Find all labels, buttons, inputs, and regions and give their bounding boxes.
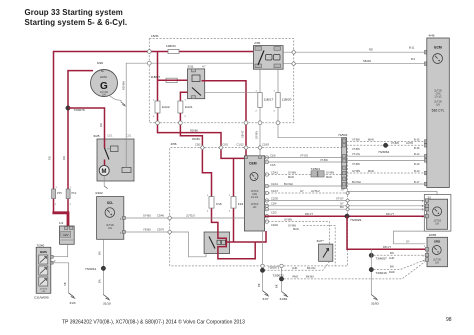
- svg-text:GY: GY: [406, 240, 410, 244]
- svg-text:LHD: LHD: [389, 256, 394, 260]
- svg-text:BN: BN: [390, 251, 394, 255]
- circles on 4/56 bottom edge: [261, 264, 264, 267]
- svg-text:GY-BN: GY-BN: [288, 223, 296, 227]
- svg-text:PF5: PF5: [57, 191, 62, 195]
- pre-fuse PF2: [66, 189, 77, 199]
- svg-text:J1/T1/0: J1/T1/0: [433, 221, 441, 223]
- svg-text:VT-BN: VT-BN: [352, 147, 360, 151]
- ground 31/3: [69, 293, 76, 305]
- svg-text:7/240: 7/240: [37, 243, 45, 247]
- junction 73/5072: [273, 262, 426, 282]
- svg-text:73/4057: 73/4057: [376, 256, 387, 260]
- wire: BMS to ground: [51, 263, 69, 293]
- svg-text:C1/41: C1/41: [271, 182, 278, 186]
- svg-text:VT-BN: VT-BN: [391, 141, 399, 145]
- row C2/14 red to ignition switch: [265, 215, 268, 218]
- fuse F15: [209, 197, 222, 232]
- svg-text:4/56: 4/56: [171, 142, 177, 146]
- diamonds on 15/31 right edge: [292, 50, 296, 55]
- svg-text:31/7: 31/7: [263, 297, 269, 301]
- svg-text:VT-BN: VT-BN: [320, 158, 328, 162]
- row C2/30: [265, 199, 268, 202]
- ECM 4/46: [427, 34, 450, 188]
- svg-text:RD-WH: RD-WH: [122, 81, 126, 90]
- svg-text:F24: F24: [238, 202, 244, 206]
- wire: GY loop ignition to SRD: [394, 231, 426, 244]
- svg-text:F15: F15: [216, 202, 222, 206]
- svg-text:CEM: CEM: [249, 162, 257, 166]
- fuse 11B/20: [276, 93, 292, 108]
- row B-14: [347, 155, 426, 157]
- svg-text:C31/W099: C31/W099: [34, 295, 49, 299]
- svg-text:11A/1: 11A/1: [185, 105, 193, 109]
- svg-text:C3/76: C3/76: [157, 228, 164, 232]
- ignition switch box 3/1: [422, 195, 451, 232]
- svg-text:Group 33 Starting system: Group 33 Starting system: [25, 8, 123, 17]
- svg-text:B-11: B-11: [409, 46, 415, 50]
- svg-text:LIN: LIN: [253, 207, 257, 209]
- svg-text:4/46: 4/46: [429, 34, 435, 38]
- svg-text:15/31: 15/31: [151, 34, 159, 38]
- ground 31/84: [275, 281, 289, 301]
- fuse F24: [231, 158, 244, 242]
- svg-text:73/5072: 73/5072: [273, 273, 284, 277]
- svg-text:GY-BN: GY-BN: [288, 170, 296, 174]
- junction 73/4029 on red row: [345, 214, 426, 249]
- svg-text:AUTO: AUTO: [406, 141, 413, 145]
- svg-text:11A/2: 11A/2: [162, 105, 170, 109]
- svg-text:BU-WH: BU-WH: [284, 182, 293, 186]
- connector strip 74/501: [338, 133, 348, 188]
- svg-text:GY: GY: [300, 189, 304, 193]
- row C1/6: [265, 156, 268, 159]
- svg-text:LHD: LHD: [292, 266, 297, 270]
- svg-text:LIN: LIN: [102, 94, 106, 97]
- fuse 11B/17: [258, 93, 274, 108]
- svg-text:C2/4: C2/4: [271, 202, 277, 206]
- wire: main red battery rail top: [54, 52, 254, 213]
- svg-text:5&6 CYL: 5&6 CYL: [432, 109, 445, 113]
- switch 3/27: [265, 239, 333, 270]
- svg-text:C0/2: C0/2: [195, 142, 201, 146]
- svg-text:J1/T1/0: J1/T1/0: [433, 260, 441, 262]
- wire: SCL ground with junction 73/4012: [85, 239, 106, 294]
- svg-text:74/504: 74/504: [311, 167, 321, 171]
- svg-text:SB: SB: [63, 282, 67, 286]
- svg-text:C1/47: C1/47: [271, 189, 278, 193]
- svg-text:J1/T1/0: J1/T1/0: [251, 204, 259, 206]
- wire: red from 11A/2 down to CEM (RD-BK): [158, 113, 245, 158]
- junction 73/4016: [369, 260, 425, 275]
- svg-text:MAN: MAN: [368, 137, 374, 141]
- svg-text:2/35: 2/35: [254, 41, 260, 45]
- svg-text:ACM: ACM: [100, 75, 107, 79]
- fuse 11A/2: [155, 101, 170, 113]
- starter ground stub: [103, 176, 105, 187]
- starter relay: [204, 232, 230, 254]
- svg-text:11B/34: 11B/34: [166, 44, 176, 48]
- row C1/5: [265, 160, 268, 163]
- svg-text:ECM: ECM: [434, 46, 442, 50]
- rows 74/501 to ECM: [347, 137, 429, 185]
- relay 2/35: [253, 41, 283, 69]
- wire: starter relay out to CEM: [230, 231, 266, 242]
- svg-text:6/25: 6/25: [94, 134, 100, 138]
- svg-text:MAN: MAN: [288, 175, 294, 179]
- svg-text:73/3064: 73/3064: [378, 150, 389, 154]
- row C2/41 with 74/504: [265, 173, 268, 176]
- row B-10: [347, 159, 426, 161]
- svg-text:73/4016: 73/4016: [376, 271, 387, 275]
- junction 73/3076: [66, 106, 70, 110]
- row C2/40 dashed to 3/27: [265, 220, 268, 223]
- svg-text:J1/T1/0: J1/T1/0: [251, 191, 259, 193]
- row B-17: [347, 183, 426, 185]
- svg-text:LIN: LIN: [42, 291, 46, 293]
- starter motor 6/25: [94, 134, 135, 181]
- svg-text:RD-BU: RD-BU: [192, 137, 200, 141]
- dashed box 4/56: [170, 142, 348, 266]
- svg-text:12V: 12V: [63, 233, 68, 237]
- svg-text:LIN: LIN: [108, 228, 112, 230]
- svg-text:B-10: B-10: [414, 162, 420, 166]
- ground 31/10: [103, 295, 111, 306]
- ground 31/7: [257, 273, 269, 302]
- fuse 11B/34: [166, 44, 179, 53]
- svg-text:3/27*: 3/27*: [317, 239, 325, 243]
- svg-text:B-16: B-16: [414, 146, 420, 150]
- svg-text:GY-BN: GY-BN: [255, 131, 259, 139]
- svg-text:BU: BU: [340, 205, 344, 209]
- wire: red to fuse 11A/1: [180, 92, 187, 101]
- svg-text:RD-BK: RD-BK: [190, 129, 198, 133]
- junction circles on 15/31 bottom edge: [156, 121, 160, 125]
- svg-text:C1/12: C1/12: [237, 142, 244, 146]
- svg-text:SB-RD: SB-RD: [363, 59, 371, 63]
- row B-13 dashed: [347, 172, 426, 174]
- svg-text:C2/41: C2/41: [271, 170, 278, 174]
- wire: thick battery jog: [52, 213, 68, 226]
- wire: relay 2/35 coil pin 1 down through fuse 11B/17 to CEM: [259, 69, 261, 156]
- row C2/3: [265, 208, 268, 211]
- svg-text:VT-BN: VT-BN: [352, 137, 360, 141]
- svg-text:RD: RD: [369, 48, 373, 52]
- pin number labels: [55, 91, 426, 263]
- row B-15 dashed: [347, 141, 426, 143]
- svg-text:GY-BU: GY-BU: [143, 214, 151, 218]
- svg-text:RD-VT: RD-VT: [383, 245, 391, 249]
- pre-fuse PF5: [52, 189, 63, 199]
- svg-text:73/4012: 73/4012: [85, 267, 96, 271]
- row B-16 dashed with junction 73/3064: [347, 144, 426, 146]
- generator 6/26: [91, 61, 118, 97]
- svg-text:J1/T1/0: J1/T1/0: [434, 102, 442, 104]
- svg-text:98: 98: [446, 317, 452, 323]
- fuse 11B/27 + branch: [151, 52, 202, 102]
- svg-text:1/1-1/2: 1/1-1/2: [434, 97, 442, 99]
- svg-text:MAN: MAN: [326, 175, 332, 179]
- svg-text:TP 39264202 V70(08-), XC70(08-: TP 39264202 V70(08-), XC70(08-) & S80(07…: [62, 319, 245, 326]
- svg-text:VT-OG: VT-OG: [300, 153, 308, 157]
- svg-text:C1/63: C1/63: [262, 142, 269, 146]
- svg-text:M: M: [102, 169, 107, 175]
- row C1/41: [265, 184, 268, 187]
- wire: relay2/35 to starter solenoid: [126, 63, 253, 139]
- wires: relay 2/35 outputs to ECM: [283, 51, 426, 53]
- svg-text:11B/20: 11B/20: [282, 97, 292, 101]
- ground 31/93: [371, 295, 379, 306]
- svg-text:BU-WH: BU-WH: [352, 180, 361, 184]
- svg-text:10/65: 10/65: [429, 233, 437, 237]
- svg-text:B-5: B-5: [411, 57, 416, 61]
- svg-text:C1/6: C1/6: [270, 153, 276, 157]
- svg-text:C0/1: C0/1: [223, 142, 229, 146]
- svg-text:2/31: 2/31: [188, 64, 194, 68]
- svg-text:31/93: 31/93: [371, 302, 379, 306]
- svg-text:MAN: MAN: [293, 227, 299, 231]
- svg-text:PF2: PF2: [72, 191, 77, 195]
- SRD module 10/65: [425, 233, 447, 267]
- svg-text:BN: BN: [97, 279, 101, 283]
- svg-text:LIN: LIN: [436, 105, 440, 107]
- junction 73/4057: [369, 249, 425, 294]
- wire: generator feed red: [68, 71, 93, 213]
- svg-text:B-15: B-15: [414, 137, 420, 141]
- svg-text:31/3: 31/3: [70, 301, 76, 305]
- junction circles on 15/31 left edge: [147, 50, 151, 54]
- svg-text:BMS: BMS: [40, 250, 47, 254]
- svg-text:MAN: MAN: [368, 169, 374, 173]
- svg-text:VT-GY: VT-GY: [336, 196, 344, 200]
- battery 1/1: [59, 221, 74, 244]
- svg-text:C2/1: C2/1: [107, 134, 113, 138]
- svg-text:C1/5: C1/5: [270, 163, 276, 167]
- wire: battery to BMS: [51, 244, 68, 256]
- svg-text:4/7: 4/7: [202, 64, 206, 68]
- svg-text:CAN: CAN: [252, 193, 257, 196]
- dashed box 15/31: [149, 34, 293, 123]
- diamonds C0/2 C0/1 C1/12 C1/63 on 4/56 top edge: [195, 142, 269, 150]
- svg-text:BN: BN: [97, 251, 101, 255]
- svg-text:B-13: B-13: [414, 169, 420, 173]
- svg-text:LIN: LIN: [435, 224, 439, 226]
- fuse 11A/1: [178, 101, 193, 113]
- svg-text:RD: RD: [62, 156, 66, 160]
- svg-text:GY-BN: GY-BN: [284, 218, 292, 222]
- svg-text:J1/T1/0: J1/T1/0: [434, 91, 442, 93]
- SCL 4/102: [95, 191, 125, 239]
- svg-text:YE-BU: YE-BU: [143, 228, 151, 232]
- relay 2/31: [188, 64, 207, 98]
- svg-text:GY: GY: [340, 202, 344, 206]
- svg-text:SCL: SCL: [107, 201, 113, 205]
- svg-text:C2/40: C2/40: [271, 223, 278, 227]
- svg-text:1/1: 1/1: [59, 221, 64, 225]
- svg-text:74/501: 74/501: [338, 133, 348, 137]
- svg-text:6/26: 6/26: [97, 61, 103, 65]
- generator ground wire: [110, 96, 121, 102]
- svg-text:31/10: 31/10: [103, 302, 111, 306]
- svg-text:RD: RD: [48, 156, 52, 160]
- svg-text:C2/3: C2/3: [271, 210, 277, 214]
- svg-text:J1/T1/2: J1/T1/2: [311, 189, 320, 193]
- wire: relay 2/31 out red: [202, 81, 247, 156]
- CEM right rows: [265, 153, 437, 266]
- row C1/47: [265, 191, 268, 194]
- svg-text:4/102: 4/102: [95, 191, 103, 195]
- svg-text:SB-VT: SB-VT: [241, 130, 245, 138]
- svg-text:GY-BN: GY-BN: [352, 169, 360, 173]
- svg-text:31/84: 31/84: [280, 297, 288, 301]
- svg-text:RHD: RHD: [293, 275, 299, 279]
- svg-text:Starting system 5- & 6-Cyl.: Starting system 5- & 6-Cyl.: [25, 18, 128, 27]
- svg-text:SRD: SRD: [434, 240, 441, 244]
- svg-text:1/1-1/2: 1/1-1/2: [251, 197, 259, 199]
- svg-text:RD: RD: [99, 123, 103, 127]
- svg-text:BK: BK: [275, 284, 279, 288]
- svg-text:GY-BN: GY-BN: [326, 170, 334, 174]
- svg-text:B+: B+: [101, 69, 105, 73]
- wire: starter relay bottom pin: [218, 242, 255, 259]
- svg-text:B-17: B-17: [414, 180, 420, 184]
- wire: relay 2/35 coil pin 2 down through fuse 11B/20 to 74/501: [278, 69, 342, 138]
- wire: red from 11A/1 down to fuses (RD-BU): [180, 113, 211, 197]
- svg-text:BK-OG: BK-OG: [307, 266, 315, 270]
- svg-text:J1/T1/0: J1/T1/0: [106, 225, 114, 227]
- svg-text:B-14: B-14: [414, 152, 420, 156]
- svg-text:RD-VT: RD-VT: [305, 212, 313, 216]
- svg-text:73/5071: 73/5071: [268, 266, 279, 270]
- diamonds on 4/56 right edge: [346, 191, 350, 211]
- CEM 4/56 module: [244, 156, 264, 231]
- BMS 7/240: [34, 243, 56, 299]
- svg-text:C3/46: C3/46: [157, 214, 164, 218]
- svg-text:BK: BK: [257, 283, 261, 287]
- svg-text:VT-OG: VT-OG: [352, 152, 360, 156]
- svg-text:BK-BU: BK-BU: [306, 275, 314, 279]
- svg-text:BN: BN: [390, 264, 394, 268]
- SCL wires to CEM: [124, 214, 244, 257]
- row C2/4: [265, 204, 268, 207]
- wire: red to starter: [68, 108, 105, 139]
- svg-text:CAN: CAN: [436, 93, 441, 96]
- svg-text:11B/17: 11B/17: [264, 97, 274, 101]
- wire: relay 2/31 switch out gray: [205, 91, 258, 93]
- svg-text:73/4029: 73/4029: [350, 218, 361, 222]
- svg-text:C2/30: C2/30: [271, 196, 278, 200]
- svg-text:LIN: LIN: [435, 263, 439, 265]
- svg-text:C2/1: C2/1: [126, 134, 132, 138]
- svg-text:J1/T1/3: J1/T1/3: [186, 214, 195, 218]
- svg-text:11B/27: 11B/27: [151, 75, 161, 79]
- svg-text:RD-VT: RD-VT: [386, 212, 394, 216]
- svg-text:VT-BN: VT-BN: [352, 162, 360, 166]
- svg-text:RHD: RHD: [389, 270, 395, 274]
- junction 73/5071: [260, 231, 279, 272]
